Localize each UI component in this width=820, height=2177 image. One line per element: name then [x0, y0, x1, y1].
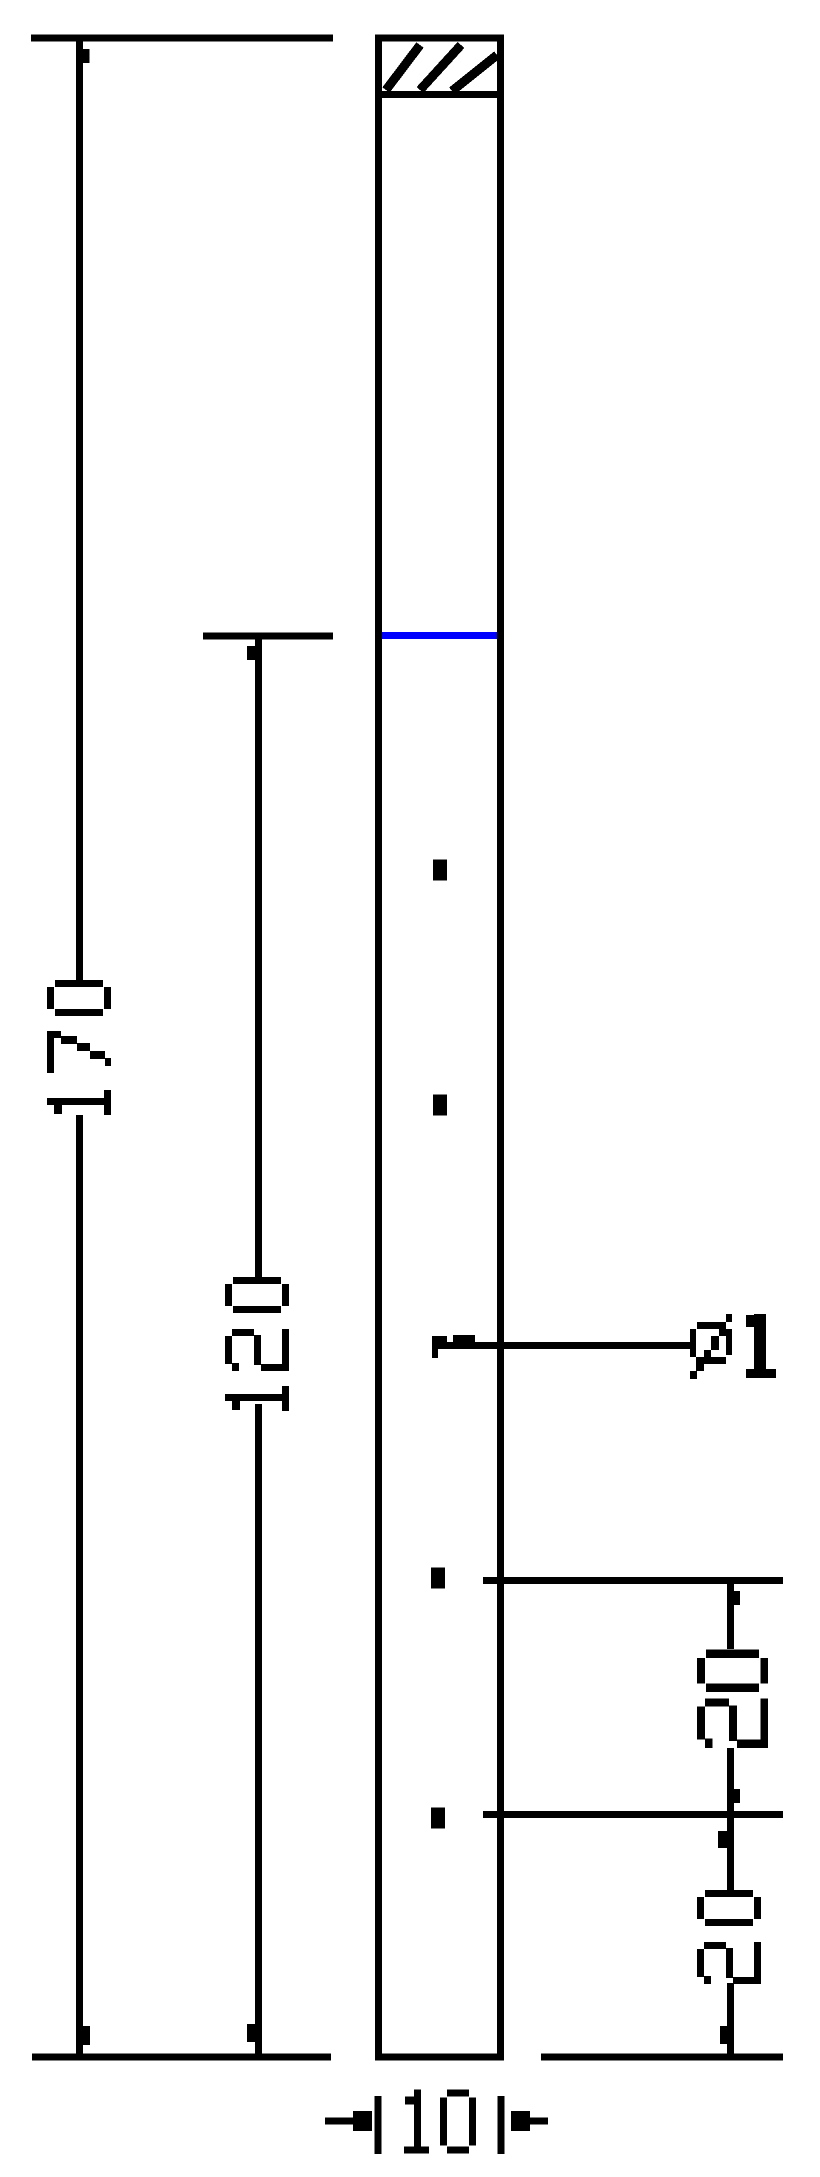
dim 20 lower line segment a	[727, 1815, 734, 1891]
dim 20 lower bottom arrow tick	[720, 2026, 729, 2044]
dim 20 upper bottom arrow tick	[731, 1789, 740, 1803]
leader line for hole diameter	[433, 1342, 692, 1349]
bar left edge	[375, 35, 382, 2061]
bar top edge	[375, 35, 504, 42]
label 10 digit 0	[440, 2090, 476, 2154]
hole dot 4	[431, 1568, 445, 1589]
hole dot 2	[433, 1095, 447, 1116]
hatch line 2	[420, 45, 461, 90]
dim 170 bottom arrow tick	[81, 2026, 90, 2045]
dim 20 middle extension line	[483, 1811, 783, 1818]
dim 170 top extension line	[31, 35, 333, 42]
label 170 digit 7	[47, 1031, 111, 1073]
bar right edge	[497, 35, 504, 2061]
hatch line 3	[452, 55, 497, 91]
dim 20 upper top arrow tick	[732, 1591, 740, 1605]
label 120 digit 2	[225, 1329, 289, 1371]
bar bottom edge	[375, 2054, 504, 2061]
label 120 digit 1	[225, 1386, 289, 1411]
label 170 digit 0	[47, 980, 111, 1016]
dim 120 line upper segment	[255, 636, 262, 1279]
dim 20 lower line segment b	[727, 1983, 734, 2057]
bottom-right extension line	[541, 2054, 783, 2061]
dim 20 upper line segment b	[727, 1748, 734, 1815]
dim 170 line lower segment	[76, 1115, 83, 2057]
dim 120 top extension line	[203, 633, 333, 640]
label 20 upper digit 0	[697, 1650, 768, 1692]
dim 10 left arrow tail	[325, 2118, 357, 2125]
bottom-left extension line	[32, 2054, 331, 2061]
hole dot 5	[431, 1808, 445, 1829]
dim 20 lower top arrow tick	[718, 1831, 727, 1848]
dim 20 upper extension line	[483, 1577, 783, 1584]
label 20 upper digit 2	[697, 1698, 768, 1748]
dim 120 top arrow tick	[247, 646, 255, 660]
blue reference line	[382, 632, 497, 639]
dim 170 line upper segment	[76, 38, 83, 980]
label diameter symbol	[690, 1314, 732, 1379]
hole dot 3	[432, 1336, 438, 1358]
label diameter digit 1	[746, 1314, 776, 1378]
dim 10 left arrow head	[353, 2111, 372, 2131]
dim 120 line lower segment	[255, 1404, 262, 2057]
label 10 digit 1	[404, 2090, 429, 2154]
leader arrow block b	[453, 1335, 475, 1343]
bar hatch bottom line	[375, 91, 504, 98]
label 20 lower digit 0	[697, 1890, 761, 1926]
leader arrow block a	[432, 1336, 447, 1343]
label 120 digit 0	[225, 1277, 289, 1313]
dim 170 top arrow tick	[82, 49, 90, 63]
label 20 lower digit 2	[697, 1942, 761, 1984]
dim 120 bottom arrow tick	[247, 2024, 256, 2042]
dim 10 right arrow head	[511, 2111, 530, 2131]
hatch line 1	[386, 45, 420, 90]
dim 10 left extension line	[375, 2096, 382, 2154]
dim 20 upper line segment a	[727, 1581, 734, 1650]
dim 10 right extension line	[498, 2096, 505, 2154]
dim 10 right arrow tail	[530, 2118, 548, 2125]
hole dot 1	[433, 860, 447, 881]
label 170 digit 1	[47, 1090, 111, 1115]
